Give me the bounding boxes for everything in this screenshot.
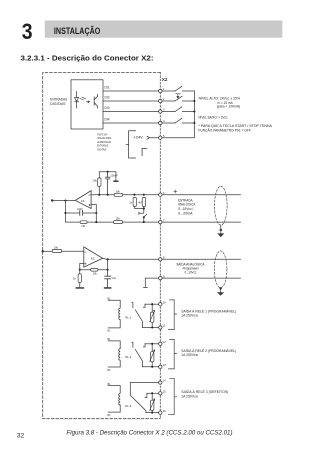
wire bottom row to pin 7: [65, 221, 158, 223]
svg-text:1: 1: [163, 87, 165, 91]
svg-text:DI1: DI1: [105, 86, 110, 90]
pin 15: [159, 392, 162, 395]
shield ground AI: [220, 225, 222, 233]
junction divider left: [133, 194, 135, 196]
varistor RV3: [151, 393, 153, 412]
bracket RL3 pins: [168, 378, 176, 414]
resistor R6 divider: [142, 197, 145, 206]
svg-text:DIGITAIS: DIGITAIS: [97, 148, 106, 152]
pin 2: [159, 99, 162, 102]
svg-text:100nF: 100nF: [110, 173, 118, 177]
shield ellipse AI cable: [215, 186, 228, 225]
relay RL2 contact: [132, 342, 145, 367]
op-amp A2: [84, 247, 103, 267]
optocoupler LED D1: [75, 92, 79, 109]
svg-text:10k: 10k: [116, 190, 121, 194]
capacitor C1 100nF: [106, 172, 110, 195]
header grey bar: [45, 21, 282, 38]
svg-text:NÍVEL BAIXO: < 3Vcc: NÍVEL BAIXO: < 3Vcc: [198, 116, 227, 120]
dashed equipment border: [43, 73, 161, 419]
svg-text:1k: 1k: [73, 277, 76, 281]
resistor R4 10k input row: [114, 193, 122, 196]
ground bias: [113, 181, 118, 183]
svg-text:Figura 3.8 - Descrição Conecto: Figura 3.8 - Descrição Conector X 2 (CCS…: [67, 429, 233, 436]
relay RL1 contact: [132, 303, 145, 328]
varistor RV1: [151, 304, 153, 327]
phototransistor Q1: [94, 95, 97, 109]
svg-text:ENTRADAS: ENTRADAS: [50, 97, 68, 101]
pin 5: [159, 136, 162, 139]
wire R7 to A2: [61, 250, 84, 252]
wire +24V to pin 5: [147, 136, 159, 139]
wire jumper to bottom row: [143, 217, 145, 222]
svg-text:DI3: DI3: [105, 106, 110, 110]
svg-text:3: 3: [22, 19, 33, 44]
connector X2 dashed line: [159, 73, 161, 419]
junction rail DI2: [193, 100, 195, 102]
svg-text:0...20mA: 0...20mA: [178, 212, 193, 216]
svg-text:1k: 1k: [129, 201, 132, 204]
junction feedback left: [79, 269, 81, 271]
svg-text:ANALÓGICA: ANALÓGICA: [178, 202, 196, 207]
op-amp A1: [75, 191, 91, 209]
svg-text:DI2: DI2: [105, 96, 110, 100]
svg-text:4k7: 4k7: [138, 201, 143, 204]
wire RL2 contact top: [145, 343, 159, 345]
pin 7: [159, 220, 162, 223]
svg-text:3.2.3.1 - Descrição do Conecto: 3.2.3.1 - Descrição do Conector X2:: [21, 55, 154, 62]
svg-text:11: 11: [163, 324, 166, 328]
svg-text:FUNÇÃO PARÂMETRO P61 = OFF: FUNÇÃO PARÂMETRO P61 = OFF: [198, 128, 251, 133]
wire feedback row A2: [80, 269, 108, 271]
switch S4: [175, 118, 182, 123]
svg-text:B2: B2: [108, 414, 112, 417]
capacitor C3 A2 output: [105, 270, 111, 288]
resistor R2 feedback: [80, 221, 87, 224]
svg-text:10k: 10k: [93, 272, 98, 276]
pin 3: [159, 110, 162, 113]
svg-text:DIGITAIS: DIGITAIS: [50, 102, 66, 106]
junction shield drain AI: [220, 229, 222, 231]
polarity plus mark: [174, 190, 177, 193]
svg-text:RL-1: RL-1: [125, 316, 131, 320]
svg-text:1M: 1M: [81, 224, 85, 228]
svg-text:A2: A2: [91, 257, 95, 261]
wire A2 output: [103, 258, 159, 259]
switch S3: [175, 107, 182, 112]
ground C3: [104, 287, 112, 289]
wire feedback cap row: [65, 212, 96, 214]
relay RL3 fixed contact: [145, 393, 147, 397]
junction rail DI4: [193, 122, 195, 124]
pin 12: [159, 342, 162, 345]
svg-text:SAÍDA À RELÉ 3 (DEFEITOS): SAÍDA À RELÉ 3 (DEFEITOS): [181, 389, 228, 394]
wire RL2 contact bottom: [142, 366, 158, 368]
svg-text:1A 250Vca: 1A 250Vca: [181, 394, 197, 398]
svg-text:12: 12: [163, 340, 167, 344]
wire feedback left link: [64, 201, 66, 223]
wire A1 inverting link: [91, 205, 96, 223]
junction shield drain AO: [219, 287, 221, 289]
fonte 24V bracket: [126, 131, 135, 158]
pin 8: [159, 258, 162, 261]
switch S1: [175, 86, 182, 91]
svg-text:0...10Vcc: 0...10Vcc: [185, 270, 197, 274]
shield ellipse AO cable: [214, 251, 227, 288]
wire RL1 contact top: [145, 303, 159, 305]
jumper J1 selector: [139, 212, 147, 217]
pin 4: [159, 121, 162, 124]
pin 10: [159, 303, 162, 306]
svg-text:B2: B2: [108, 369, 112, 372]
wire AO return pin 9: [144, 278, 241, 287]
svg-text:B2: B2: [108, 330, 112, 333]
wire AO external: [162, 258, 241, 260]
svg-text:10k: 10k: [93, 178, 98, 182]
pin 6: [159, 193, 162, 196]
wire RL1 contact bottom: [142, 327, 158, 329]
junction divider right: [143, 194, 145, 196]
wire DI1: [103, 90, 194, 92]
junction output link: [64, 199, 66, 201]
wire RL3 middle: [147, 392, 159, 394]
pin 16: [159, 411, 162, 414]
svg-text:2n2: 2n2: [112, 276, 117, 280]
svg-text:(para + 100mA): (para + 100mA): [217, 105, 241, 109]
svg-text:DI4: DI4: [105, 118, 110, 122]
svg-text:4: 4: [163, 119, 165, 123]
svg-text:15: 15: [163, 390, 167, 394]
junction cap row left: [64, 212, 66, 214]
pin 11: [159, 326, 162, 329]
wire inv link A2: [80, 264, 84, 270]
svg-text:10: 10: [163, 300, 167, 304]
wire A1 non-inverting row: [91, 194, 159, 196]
resistor R5 divider: [133, 197, 136, 206]
junction A2 output: [107, 258, 109, 260]
bracket RL2 pins: [168, 340, 176, 369]
svg-text:10k: 10k: [116, 217, 121, 221]
svg-text:NÍVEL ALTO: 24Vcc ± 25%: NÍVEL ALTO: 24Vcc ± 25%: [199, 97, 241, 101]
svg-text:3: 3: [163, 108, 165, 112]
junction bias rail: [107, 171, 109, 173]
svg-text:8: 8: [163, 256, 165, 260]
resistor R3 10k bottom row: [114, 221, 123, 224]
bracket RL1 pins: [168, 300, 176, 330]
svg-text:+24V: +24V: [133, 136, 144, 140]
varistor RV2: [151, 344, 153, 367]
wire A1 output: [52, 200, 75, 202]
svg-text:9: 9: [163, 274, 165, 278]
svg-text:5: 5: [163, 134, 165, 138]
svg-text:16: 16: [163, 409, 167, 413]
resistor R9 1k to ground: [79, 270, 81, 288]
wire AO input: [43, 250, 52, 252]
resistor R8 10k feedback A2: [91, 268, 98, 271]
svg-text:100n: 100n: [77, 207, 83, 211]
junction rail DI3: [193, 110, 195, 112]
svg-text:A1: A1: [81, 199, 85, 203]
shield ground AO: [220, 288, 222, 293]
wire DI2: [103, 100, 194, 102]
node internal AO in: [42, 250, 44, 252]
svg-text:SAÍDA À RELÉ 2 (PROGRAMÁVEL): SAÍDA À RELÉ 2 (PROGRAMÁVEL): [181, 348, 236, 353]
switch rail wire: [162, 91, 195, 138]
wire AI- external: [162, 221, 241, 223]
chassis symbol: [142, 148, 147, 155]
junction C1 row: [107, 194, 109, 196]
resistor R7 10k AO input: [52, 249, 61, 252]
svg-text:14: 14: [163, 379, 167, 383]
pin 9: [159, 276, 162, 279]
pin 13: [159, 365, 162, 368]
svg-text:1A 250Vca: 1A 250Vca: [181, 314, 197, 318]
svg-text:SAÍDA À RELÉ 1 (PROGRAMÁVEL): SAÍDA À RELÉ 1 (PROGRAMÁVEL): [181, 308, 236, 313]
svg-text:RL-3: RL-3: [125, 404, 131, 408]
junction cap row right: [95, 212, 97, 214]
svg-text:7: 7: [163, 218, 165, 222]
wire DI3: [103, 111, 194, 113]
svg-text:X2: X2: [162, 77, 168, 82]
light arrow: [86, 101, 89, 103]
wire R1 to input row: [98, 186, 100, 194]
resistor R1 10k vertical: [98, 178, 101, 186]
svg-text:1A 250Vca: 1A 250Vca: [181, 353, 197, 357]
svg-text:6: 6: [163, 191, 165, 195]
relay RL3 contact common: [130, 383, 158, 413]
svg-text:RL-2: RL-2: [125, 355, 131, 359]
wire divider bottoms: [135, 206, 144, 212]
svg-text:* PARA QUE A TECLA START / STO: * PARA QUE A TECLA START / STOP TENHA: [198, 124, 272, 128]
junction R1 row: [98, 194, 100, 196]
pin 1: [159, 89, 162, 92]
node internal AI out: [51, 199, 53, 201]
svg-text:10k: 10k: [54, 246, 59, 250]
svg-text:2: 2: [163, 97, 165, 101]
pin 14: [159, 381, 162, 384]
wire DI4: [103, 122, 194, 124]
capacitor C2 100n feedback: [80, 210, 83, 215]
svg-text:INSTALAÇÃO: INSTALAÇÃO: [54, 26, 101, 36]
svg-text:32: 32: [17, 433, 25, 440]
junction divider join: [143, 208, 145, 210]
bias rail wire: [99, 172, 116, 181]
wire AI+ external: [162, 194, 241, 196]
junction feedback right: [107, 269, 109, 271]
ground R9: [76, 287, 85, 289]
digital inputs box: [71, 80, 103, 129]
switch S2 start/stop key: [175, 96, 182, 101]
junction inv bottom: [95, 221, 97, 223]
wire A2 feedback down: [107, 259, 109, 269]
svg-text:13: 13: [163, 363, 167, 367]
